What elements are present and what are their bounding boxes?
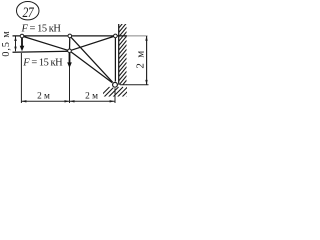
svg-text:2 м: 2 м <box>134 49 146 68</box>
svg-text:F = 15 кН: F = 15 кН <box>22 58 63 69</box>
svg-text:0,5 м: 0,5 м <box>1 30 12 56</box>
svg-text:27: 27 <box>22 4 34 21</box>
svg-text:F = 15 кН: F = 15 кН <box>21 24 62 35</box>
svg-text:2 м: 2 м <box>37 92 50 102</box>
svg-text:2 м: 2 м <box>85 92 98 102</box>
